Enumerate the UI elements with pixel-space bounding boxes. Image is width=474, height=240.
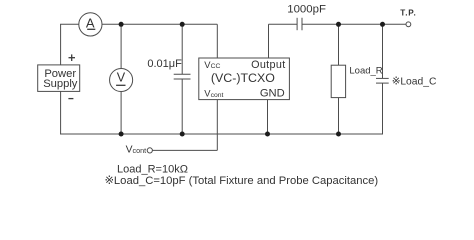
svg-text:GND: GND — [260, 88, 285, 100]
svg-text:Vcont: Vcont — [126, 145, 147, 156]
svg-text:Supply: Supply — [43, 78, 78, 90]
svg-text:V: V — [117, 70, 126, 84]
svg-text:1000pF: 1000pF — [287, 4, 326, 16]
svg-text:Load_R: Load_R — [349, 66, 382, 77]
svg-text:Output: Output — [251, 59, 286, 71]
svg-text:Load_R=10kΩ: Load_R=10kΩ — [117, 163, 188, 175]
svg-text:T.P.: T.P. — [400, 8, 416, 17]
svg-text:A: A — [86, 16, 95, 31]
svg-text:※Load_C=10pF (Total Fixture an: ※Load_C=10pF (Total Fixture and Probe Ca… — [105, 175, 379, 187]
svg-text:0.01μF: 0.01μF — [147, 58, 182, 70]
svg-text:※Load_C: ※Load_C — [392, 77, 437, 88]
svg-text:(VC-)TCXO: (VC-)TCXO — [211, 71, 275, 85]
